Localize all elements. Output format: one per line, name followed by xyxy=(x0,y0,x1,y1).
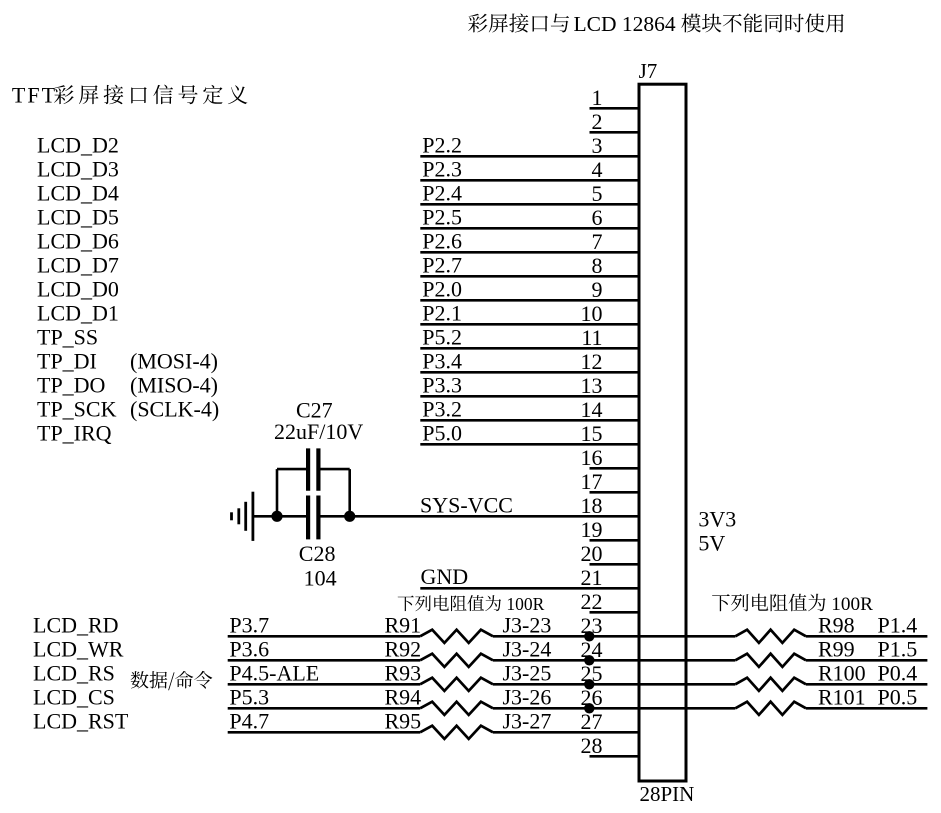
label R92 xyxy=(385,636,422,661)
svg-text:22uF/10V: 22uF/10V xyxy=(274,419,363,444)
svg-text:SYS-VCC: SYS-VCC xyxy=(420,492,513,517)
title: TFT彩屏接口信号定义 xyxy=(12,83,247,108)
label J3-26 xyxy=(503,684,552,709)
capacitor C27 xyxy=(308,448,318,490)
label (MOSI-4) xyxy=(130,348,218,373)
svg-text:(MOSI-4): (MOSI-4) xyxy=(130,348,218,373)
wire pin 11 xyxy=(420,347,639,350)
svg-text:LCD_WR: LCD_WR xyxy=(33,636,124,661)
junction dot pin 25 xyxy=(584,679,594,689)
pin number 21 xyxy=(581,565,603,590)
wire P3.6 to R92 xyxy=(228,659,420,662)
net label LCD_D6 xyxy=(37,228,119,253)
label 104 xyxy=(304,566,337,591)
resistor R91 xyxy=(420,630,493,643)
svg-text:2: 2 xyxy=(592,109,603,134)
pin number 19 xyxy=(581,517,603,542)
label P3.7 xyxy=(229,612,269,637)
svg-text:8: 8 xyxy=(592,253,603,278)
svg-text:GND: GND xyxy=(421,564,469,589)
label R100 xyxy=(818,660,866,685)
pin number 4 xyxy=(592,157,603,182)
label GND xyxy=(421,564,469,589)
wire R94 to pin 26 through to R101 xyxy=(493,707,735,710)
svg-text:TP_DI: TP_DI xyxy=(37,348,97,373)
label P3.2 pin 14 xyxy=(422,396,462,421)
label C27 xyxy=(296,398,333,423)
svg-text:LCD_D6: LCD_D6 xyxy=(37,228,119,253)
pin number 1 xyxy=(592,85,603,110)
net label LCD_RD xyxy=(33,612,119,637)
pin number 20 xyxy=(581,541,603,566)
svg-text:P2.2: P2.2 xyxy=(422,132,462,157)
svg-text:R99: R99 xyxy=(818,636,855,661)
capacitor C28 xyxy=(308,496,318,540)
wire R93 to pin 25 through to R100 xyxy=(493,683,735,686)
wire pin 22 stub xyxy=(590,611,640,614)
svg-text:14: 14 xyxy=(581,397,603,422)
label R93 xyxy=(385,660,422,685)
svg-text:LCD_D3: LCD_D3 xyxy=(37,156,119,181)
label P3.6 xyxy=(229,636,269,661)
svg-text:12: 12 xyxy=(581,349,603,374)
svg-text:TFT: TFT xyxy=(12,83,57,108)
svg-text:R100: R100 xyxy=(818,660,866,685)
svg-text:LCD_D5: LCD_D5 xyxy=(37,204,119,229)
wire R98 to P1.4 xyxy=(806,635,927,638)
wire C27 branch right xyxy=(321,469,350,516)
connector J7 body xyxy=(639,84,686,781)
label R98 xyxy=(818,612,855,637)
svg-text:LCD 12864: LCD 12864 xyxy=(574,12,676,36)
wire pin 8 xyxy=(420,275,639,278)
svg-text:P3.6: P3.6 xyxy=(229,636,269,661)
wire pin 16 stub xyxy=(590,467,640,470)
junction dot pin 24 xyxy=(584,655,594,665)
svg-text:P3.3: P3.3 xyxy=(422,372,462,397)
svg-text:18: 18 xyxy=(581,493,603,518)
svg-text:P0.5: P0.5 xyxy=(878,684,918,709)
svg-text:J3-23: J3-23 xyxy=(503,612,552,637)
svg-text:P1.4: P1.4 xyxy=(878,612,918,637)
svg-text:21: 21 xyxy=(581,565,603,590)
svg-text:P2.6: P2.6 xyxy=(422,228,462,253)
caption: 彩屏接口与 LCD 12864 模块不能同时使用 xyxy=(468,12,844,36)
label P2.0 pin 9 xyxy=(422,276,462,301)
wire pin 14 xyxy=(420,419,639,422)
svg-text:R101: R101 xyxy=(818,684,866,709)
svg-text:LCD_RST: LCD_RST xyxy=(33,708,129,733)
wire pin 15 xyxy=(420,443,639,446)
wire R101 to P0.5 xyxy=(806,707,927,710)
label 3V3 xyxy=(698,506,736,531)
svg-text:22: 22 xyxy=(581,589,603,614)
svg-text:P3.2: P3.2 xyxy=(422,396,462,421)
svg-text:104: 104 xyxy=(304,566,337,591)
label J7 xyxy=(639,59,658,83)
wire C27 branch left xyxy=(277,469,306,516)
pin number 28 xyxy=(581,733,603,758)
svg-text:J3-26: J3-26 xyxy=(503,684,552,709)
resistor R95 xyxy=(420,726,493,739)
wire C28 to pin 18 (SYS-VCC) xyxy=(321,515,640,518)
wire pin 3 xyxy=(420,155,639,158)
pin number 25 xyxy=(581,661,603,686)
svg-text:P2.0: P2.0 xyxy=(422,276,462,301)
svg-text:R93: R93 xyxy=(385,660,422,685)
wire pin 6 xyxy=(420,227,639,230)
svg-text:9: 9 xyxy=(592,277,603,302)
label J3-25 xyxy=(503,660,552,685)
label P2.2 pin 3 xyxy=(422,132,462,157)
junction dot pin 26 xyxy=(584,703,594,713)
net label LCD_D0 xyxy=(37,276,119,301)
svg-text:TP_SS: TP_SS xyxy=(37,324,98,349)
svg-text:5V: 5V xyxy=(698,530,725,555)
pin number 3 xyxy=(592,133,603,158)
svg-text:LCD_D7: LCD_D7 xyxy=(37,252,119,277)
net label LCD_D4 xyxy=(37,180,119,205)
label P3.3 pin 13 xyxy=(422,372,462,397)
svg-text:16: 16 xyxy=(581,445,603,470)
wire pin 5 xyxy=(420,203,639,206)
svg-text:28: 28 xyxy=(581,733,603,758)
pin number 8 xyxy=(592,253,603,278)
wire pin 2 stub xyxy=(590,131,640,134)
svg-text:P3.7: P3.7 xyxy=(229,612,269,637)
svg-text:J3-25: J3-25 xyxy=(503,660,552,685)
resistor R99 xyxy=(735,654,806,667)
pin number 9 xyxy=(592,277,603,302)
resistor R101 xyxy=(735,702,806,715)
label P2.7 pin 8 xyxy=(422,252,462,277)
pin number 10 xyxy=(581,301,603,326)
svg-text:100R: 100R xyxy=(506,594,544,614)
label P1.4 xyxy=(878,612,918,637)
svg-text:LCD_D1: LCD_D1 xyxy=(37,300,119,325)
svg-text:R95: R95 xyxy=(385,708,422,733)
svg-text:TP_SCK: TP_SCK xyxy=(37,396,117,421)
svg-text:P2.3: P2.3 xyxy=(422,156,462,181)
svg-text:TP_IRQ: TP_IRQ xyxy=(37,420,112,445)
label P5.3 xyxy=(229,684,269,709)
label P5.0 pin 15 xyxy=(422,420,462,445)
svg-text:P5.0: P5.0 xyxy=(422,420,462,445)
label P2.6 pin 7 xyxy=(422,228,462,253)
label 5V xyxy=(698,530,725,555)
svg-text:LCD_RS: LCD_RS xyxy=(33,660,115,685)
svg-text:R91: R91 xyxy=(385,612,422,637)
svg-text:15: 15 xyxy=(581,421,603,446)
svg-text:5: 5 xyxy=(592,181,603,206)
pin number 7 xyxy=(592,229,603,254)
net label LCD_D5 xyxy=(37,204,119,229)
wire ground to C28 xyxy=(253,515,306,518)
svg-text:LCD_D4: LCD_D4 xyxy=(37,180,119,205)
resistor R94 xyxy=(420,702,493,715)
wire pin 7 xyxy=(420,251,639,254)
pin number 14 xyxy=(581,397,603,422)
label P2.4 pin 5 xyxy=(422,180,462,205)
svg-text:(SCLK-4): (SCLK-4) xyxy=(130,396,219,421)
svg-text:J3-27: J3-27 xyxy=(503,708,552,733)
label J3-27 xyxy=(503,708,552,733)
svg-text:R98: R98 xyxy=(818,612,855,637)
pin number 23 xyxy=(581,613,603,638)
wire pin 28 stub xyxy=(590,755,640,758)
resistor R92 xyxy=(420,654,493,667)
label R99 xyxy=(818,636,855,661)
svg-text:4: 4 xyxy=(592,157,603,182)
svg-text:P2.7: P2.7 xyxy=(422,252,462,277)
resistor R98 xyxy=(735,630,806,643)
label P2.1 pin 10 xyxy=(422,300,462,325)
label (MISO-4) xyxy=(130,372,218,397)
svg-text:1: 1 xyxy=(592,85,603,110)
label P0.4 xyxy=(878,660,918,685)
net label TP_DO xyxy=(37,372,105,397)
label P5.2 pin 11 xyxy=(422,324,462,349)
pin number 16 xyxy=(581,445,603,470)
label P2.5 pin 6 xyxy=(422,204,462,229)
label 28PIN xyxy=(640,782,695,806)
junction dot right xyxy=(344,511,355,522)
svg-text:6: 6 xyxy=(592,205,603,230)
ground xyxy=(232,492,253,541)
svg-text:J7: J7 xyxy=(639,59,658,83)
pin number 27 xyxy=(581,709,603,734)
wire P5.3 to R94 xyxy=(228,707,420,710)
svg-text:R94: R94 xyxy=(385,684,422,709)
svg-text:LCD_D2: LCD_D2 xyxy=(37,132,119,157)
resistor R93 xyxy=(420,678,493,691)
wire R92 to pin 24 through to R99 xyxy=(493,659,735,662)
svg-text:13: 13 xyxy=(581,373,603,398)
label P0.5 xyxy=(878,684,918,709)
pin number 24 xyxy=(581,637,603,662)
svg-text:P0.4: P0.4 xyxy=(878,660,918,685)
net label LCD_D1 xyxy=(37,300,119,325)
svg-text:7: 7 xyxy=(592,229,603,254)
wire pin 10 xyxy=(420,323,639,326)
wire R99 to P1.5 xyxy=(806,659,927,662)
wire pin 19 stub xyxy=(590,539,640,542)
label R91 xyxy=(385,612,422,637)
svg-text:R92: R92 xyxy=(385,636,422,661)
wire pin 9 xyxy=(420,299,639,302)
svg-text:P5.3: P5.3 xyxy=(229,684,269,709)
svg-text:P5.2: P5.2 xyxy=(422,324,462,349)
label R94 xyxy=(385,684,422,709)
pin number 11 xyxy=(581,325,602,350)
wire pin 4 xyxy=(420,179,639,182)
wire pin 13 xyxy=(420,395,639,398)
svg-text:20: 20 xyxy=(581,541,603,566)
net label LCD_RST xyxy=(33,708,129,733)
note right: 下列电阻值为 100R xyxy=(712,594,873,615)
svg-text:10: 10 xyxy=(581,301,603,326)
note left: 下列电阻值为 100R xyxy=(398,594,545,614)
net label TP_IRQ xyxy=(37,420,112,445)
label R101 xyxy=(818,684,866,709)
wire P3.7 to R91 xyxy=(228,635,420,638)
svg-text:C28: C28 xyxy=(299,541,336,566)
svg-text:LCD_D0: LCD_D0 xyxy=(37,276,119,301)
label SYS-VCC xyxy=(420,492,513,517)
net label LCD_D2 xyxy=(37,132,119,157)
label P3.4 pin 12 xyxy=(422,348,462,373)
svg-text:P4.7: P4.7 xyxy=(229,708,269,733)
svg-text:3V3: 3V3 xyxy=(698,506,736,531)
net label LCD_RS xyxy=(33,660,115,685)
wire R100 to P0.4 xyxy=(806,683,927,686)
label C28 xyxy=(299,541,336,566)
svg-text:P2.5: P2.5 xyxy=(422,204,462,229)
net label LCD_WR xyxy=(33,636,124,661)
label J3-23 xyxy=(503,612,552,637)
svg-text:LCD_RD: LCD_RD xyxy=(33,612,119,637)
label R95 xyxy=(385,708,422,733)
svg-text:P1.5: P1.5 xyxy=(878,636,918,661)
pin number 2 xyxy=(592,109,603,134)
pin number 18 xyxy=(581,493,603,518)
pin number 5 xyxy=(592,181,603,206)
label P2.3 pin 4 xyxy=(422,156,462,181)
wire R95 to pin 27 xyxy=(493,731,639,734)
net label TP_SCK xyxy=(37,396,117,421)
net label LCD_D3 xyxy=(37,156,119,181)
net label TP_DI xyxy=(37,348,97,373)
junction dot pin 23 xyxy=(584,631,594,641)
svg-text:19: 19 xyxy=(581,517,603,542)
junction dot left xyxy=(271,511,282,522)
svg-text:J3-24: J3-24 xyxy=(503,636,552,661)
pin number 26 xyxy=(581,685,603,710)
pin number 17 xyxy=(581,469,603,494)
wire R91 to pin 23 through to R98 xyxy=(493,635,735,638)
wire pin 20 stub xyxy=(590,563,640,566)
net label LCD_D7 xyxy=(37,252,119,277)
label P1.5 xyxy=(878,636,918,661)
svg-text:3: 3 xyxy=(592,133,603,158)
net label LCD_CS xyxy=(33,684,115,709)
label 数据/命令 xyxy=(131,671,213,690)
wire P4.7 to R95 xyxy=(228,731,420,734)
pin number 13 xyxy=(581,373,603,398)
label P4.7 xyxy=(229,708,269,733)
wire pin 1 stub xyxy=(590,107,640,110)
pin number 6 xyxy=(592,205,603,230)
svg-text:TP_DO: TP_DO xyxy=(37,372,105,397)
label (SCLK-4) xyxy=(130,396,219,421)
wire pin 17 stub xyxy=(590,491,640,494)
pin number 12 xyxy=(581,349,603,374)
wire pin 12 xyxy=(420,371,639,374)
svg-text:(MISO-4): (MISO-4) xyxy=(130,372,218,397)
svg-text:LCD_CS: LCD_CS xyxy=(33,684,115,709)
wire P4.5-ALE to R93 xyxy=(228,683,420,686)
svg-text:P4.5-ALE: P4.5-ALE xyxy=(229,660,319,685)
svg-text:P3.4: P3.4 xyxy=(422,348,462,373)
label P4.5-ALE xyxy=(229,660,319,685)
resistor R100 xyxy=(735,678,806,691)
svg-text:28PIN: 28PIN xyxy=(640,782,695,806)
net label TP_SS xyxy=(37,324,98,349)
wire pin 21 GND xyxy=(420,587,639,590)
svg-text:17: 17 xyxy=(581,469,603,494)
svg-text:11: 11 xyxy=(581,325,602,350)
svg-text:P2.1: P2.1 xyxy=(422,300,462,325)
label J3-24 xyxy=(503,636,552,661)
svg-text:P2.4: P2.4 xyxy=(422,180,462,205)
label 22uF/10V xyxy=(274,419,363,444)
pin number 15 xyxy=(581,421,603,446)
pin number 22 xyxy=(581,589,603,614)
